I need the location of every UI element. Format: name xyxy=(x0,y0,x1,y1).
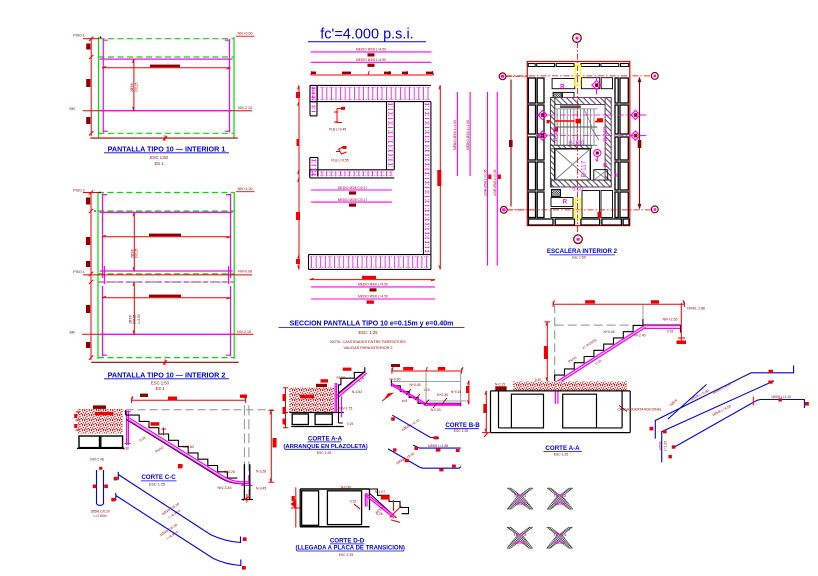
svg-text:Esc 1:50: Esc 1:50 xyxy=(572,255,586,259)
plazoleta steps outline (black) xyxy=(339,367,365,423)
grid bubble top (axis) xyxy=(573,34,582,43)
panel 2 base line (dark red) xyxy=(91,359,239,365)
svg-text:PASO: PASO xyxy=(337,376,346,380)
stair plan outer boundary (red) xyxy=(527,62,630,226)
corte D-D stair slab diagonal (magenta) xyxy=(365,493,396,518)
svg-text:1.20: 1.20 xyxy=(423,388,429,392)
svg-text:NIV-0.98: NIV-0.98 xyxy=(238,269,252,273)
corte A-A top dimension line (red) xyxy=(553,300,705,344)
svg-text:C/0.25: C/0.25 xyxy=(135,248,139,258)
svg-text:PISO 1: PISO 1 xyxy=(73,33,85,37)
svg-text:B-118: B-118 xyxy=(603,127,609,142)
corte A-A step labels (dark red) xyxy=(568,318,678,412)
svg-text:UGR Ø5/8 L=3.05: UGR Ø5/8 L=3.05 xyxy=(483,169,487,196)
svg-text:TIPO 3: TIPO 3 xyxy=(513,532,526,537)
svg-text:ESC 1:25: ESC 1:25 xyxy=(317,451,332,455)
svg-text:4Ø5/8: 4Ø5/8 xyxy=(514,540,526,545)
corte C-C title text xyxy=(141,474,177,486)
plazoleta slab with voids (black) xyxy=(289,413,344,427)
svg-text:NIV-2.15: NIV-2.15 xyxy=(237,330,251,334)
svg-text:1Ø5/8 L=1.85: 1Ø5/8 L=1.85 xyxy=(428,444,449,448)
section cut diamonds right (magenta) xyxy=(631,110,645,140)
svg-text:ESC 1:50: ESC 1:50 xyxy=(150,155,169,160)
plan interior blocks below stairwell xyxy=(551,190,613,218)
svg-text:TIPO 4: TIPO 4 xyxy=(553,532,566,537)
corte B-B top dimension line (red) xyxy=(391,364,463,374)
svg-text:NIV-2.48: NIV-2.48 xyxy=(90,458,104,462)
svg-text:B-119: B-119 xyxy=(553,127,559,142)
svg-text:MEDIO Ø3/8 C/0.17: MEDIO Ø3/8 C/0.17 xyxy=(338,186,368,190)
corte C-C construction line horizontal (gray dashed) xyxy=(126,409,274,411)
landing bar A (blue) xyxy=(391,415,439,439)
plan left masonry column xyxy=(528,78,544,218)
slab bottom bar 2 (blue) xyxy=(111,493,246,570)
corte A-A stair steps (black) xyxy=(555,319,681,381)
svg-text:ESC 1:25: ESC 1:25 xyxy=(554,452,569,456)
svg-text:PLB L=0.55: PLB L=0.55 xyxy=(331,159,348,163)
svg-text:N 0.00: N 0.00 xyxy=(431,408,441,412)
svg-text:CORTE C-C: CORTE C-C xyxy=(141,474,176,481)
panel 2 level line NIV-2.15 (red) xyxy=(82,330,253,335)
panel 2 horizontal rebar (magenta) xyxy=(100,212,233,334)
section top dimension line (red) xyxy=(311,71,434,75)
corte C-C masonry hatched block (red stipple) xyxy=(74,405,122,433)
corte A-A hatched screed band (red stipple) xyxy=(495,378,627,391)
plazoleta labels (dark red) xyxy=(337,368,366,426)
stirrup detail vertical (blue) xyxy=(90,467,110,518)
svg-text:L=2.80: L=2.80 xyxy=(137,314,141,324)
svg-text:0.26: 0.26 xyxy=(376,512,382,516)
bottom rebar line 2 with label (magenta) xyxy=(311,295,435,304)
plan title text xyxy=(547,248,618,259)
svg-text:1Ø5/8: 1Ø5/8 xyxy=(659,441,663,450)
plan axis centerline horizontal top (red dash-dot) xyxy=(506,75,652,77)
svg-text:MEDIO Ø3/8 C/0.17: MEDIO Ø3/8 C/0.17 xyxy=(338,198,368,202)
panel 2 level line NIV-0.98 (red) xyxy=(83,269,254,275)
svg-text:N-1.07: N-1.07 xyxy=(375,490,385,494)
svg-text:R: R xyxy=(603,163,607,169)
panel 1 vertical rebar (magenta) xyxy=(103,39,229,133)
svg-text:N-3.45: N-3.45 xyxy=(256,487,266,491)
section right dimension line (red) xyxy=(437,85,441,269)
stairwell middle wall (hatched) xyxy=(550,145,591,149)
yellow column marker bottom xyxy=(575,199,580,219)
svg-text:N+0.45: N+0.45 xyxy=(603,330,614,334)
section bottom dimension line (red) xyxy=(310,276,435,281)
panel 1 top level text NIV+0.00 xyxy=(69,32,254,112)
svg-text:ESC 1:25: ESC 1:25 xyxy=(454,429,469,433)
slab bottom bar 1 (blue) xyxy=(114,472,247,543)
top rebar line 2 with label (magenta) xyxy=(311,58,432,67)
plazoleta wall rebar vertical (magenta) xyxy=(335,383,341,417)
svg-text:ESC 1:50: ESC 1:50 xyxy=(151,381,170,386)
corte C-C stair soffit (black) xyxy=(127,420,245,484)
corte B-B title text xyxy=(445,422,480,433)
section left top wall stub (hatched) xyxy=(310,85,317,116)
corte C-C right dimension line (red) xyxy=(269,410,277,482)
column detail TIPO 2 (hatched bowtie) xyxy=(547,488,573,509)
panel 1 width dimension (red) xyxy=(102,65,231,70)
svg-text:NIV-3.45: NIV-3.45 xyxy=(218,486,232,490)
top rebar line 1 with label (magenta) xyxy=(311,48,432,57)
svg-text:B-117: B-117 xyxy=(581,160,588,177)
svg-text:0.15: 0.15 xyxy=(347,422,354,426)
corte C-C stair slab (magenta) xyxy=(127,417,252,485)
svg-text:PISO 1: PISO 1 xyxy=(73,270,85,274)
corte C-C red tick at wall base xyxy=(243,494,250,503)
svg-text:a=9: a=9 xyxy=(402,399,408,403)
svg-text:BM: BM xyxy=(69,107,74,111)
corte A-A construction lines (gray) xyxy=(555,304,680,381)
red marker mid-left of plan xyxy=(547,120,550,123)
grid bubble right bottom (axis) xyxy=(651,206,658,213)
panel 1 title text xyxy=(104,144,229,166)
corte B-B level labels (dark red) xyxy=(402,383,462,412)
beam labels (magenta) xyxy=(553,127,618,192)
corte D-D left dimension (red) xyxy=(291,487,301,527)
plan right masonry column xyxy=(615,78,628,218)
corte A-A stair slab (magenta) xyxy=(555,326,680,404)
svg-text:N-3.28: N-3.28 xyxy=(256,470,266,474)
svg-text:C/0.25: C/0.25 xyxy=(134,82,138,92)
svg-text:fc'=4.000 p.s.i.: fc'=4.000 p.s.i. xyxy=(320,27,413,43)
stair bar 4 short (blue) xyxy=(668,384,754,419)
corte D-D red cross tick at slab end xyxy=(390,506,402,523)
PLB bar symbol 2 (red) with label xyxy=(331,146,348,163)
vertical rebar bar 4 (magenta) with label xyxy=(493,92,501,266)
corte C-C wall rebar (magenta) xyxy=(125,411,131,446)
svg-text:R: R xyxy=(563,200,568,206)
corte D-D slab with voids (black) xyxy=(300,489,369,527)
plazoleta masonry hatched block (red stipple) xyxy=(289,379,334,412)
stair bar 3 (blue) with end hook xyxy=(672,395,809,449)
svg-text:MEDIO Ø3/8 L=1.80: MEDIO Ø3/8 L=1.80 xyxy=(466,120,470,150)
svg-text:VALIDAS PARA INTERIOR 2: VALIDAS PARA INTERIOR 2 xyxy=(343,346,392,350)
stair treads xyxy=(550,109,599,145)
elevator shaft with X brace xyxy=(555,149,591,180)
section left bottom wall stub (hatched) xyxy=(310,158,318,177)
wall panel PANTALLA TIPO 10 - INTERIOR 1 outline (green) xyxy=(99,37,235,139)
plan interior blocks above stairwell xyxy=(552,78,612,99)
svg-text:N-3.26: N-3.26 xyxy=(224,470,235,474)
plan axis centerline vertical (red dash-dot) xyxy=(576,42,578,236)
svg-text:TIPO 2: TIPO 2 xyxy=(554,493,567,498)
stair bar 1 (blue) with hooks xyxy=(650,366,794,439)
corte C-C construction verticals (gray) xyxy=(244,405,249,499)
stairwell bottom wall (hatched) xyxy=(551,180,611,187)
svg-text:CORTE B-B: CORTE B-B xyxy=(445,422,480,429)
landing bar C (blue) xyxy=(388,448,461,471)
svg-text:MEDIO Ø3/8 L=4.50: MEDIO Ø3/8 L=4.50 xyxy=(356,58,386,62)
svg-text:MEDIO Ø3/8 L=4.50: MEDIO Ø3/8 L=4.50 xyxy=(356,48,386,52)
panel 1 base line (dark red) xyxy=(90,135,238,141)
section right wall band (hatched) xyxy=(423,102,431,255)
svg-text:SECCION PANTALLA TIPO 10 e: SECCION PANTALLA TIPO 10 e=0.15m y e=0.4… xyxy=(290,321,454,328)
plan top masonry course xyxy=(528,64,629,67)
concrete strength note fc'=4.000 p.s.i. xyxy=(308,27,426,43)
svg-text:N+0.45: N+0.45 xyxy=(409,383,420,387)
svg-text:0.15: 0.15 xyxy=(667,329,674,333)
column detail TIPO 1 (hatched bowtie) xyxy=(507,488,533,509)
corte D-D labels (dark red) xyxy=(341,485,394,515)
column detail TIPO 3 (hatched bowtie) xyxy=(507,527,533,548)
plan right dimension line (dark red) xyxy=(638,78,642,208)
corte D-D steps going down (black) xyxy=(370,489,409,518)
corte B-B right dimension (red) xyxy=(466,381,469,405)
corte C-C foundation wall right (black) xyxy=(242,464,254,499)
svg-text:NIV-1.75: NIV-1.75 xyxy=(339,407,352,411)
svg-text:NIV-2.15: NIV-2.15 xyxy=(238,106,252,110)
section top wall band (hatched) xyxy=(310,85,431,101)
plazoleta title text xyxy=(283,435,367,454)
svg-text:NIV+2.55: NIV+2.55 xyxy=(662,318,677,322)
stairwell landing edge (dark gray) xyxy=(560,105,581,108)
svg-text:N-1.52: N-1.52 xyxy=(352,390,362,394)
stairwell left wall (hatched) xyxy=(550,98,554,187)
svg-text:R: R xyxy=(560,85,565,91)
svg-text:0.40: 0.40 xyxy=(535,378,542,382)
section middle horizontal wall band (hatched) xyxy=(310,170,395,178)
section middle vertical wall band (hatched) xyxy=(387,102,395,170)
svg-text:1Ø5/8 C/0.20: 1Ø5/8 C/0.20 xyxy=(90,509,110,513)
svg-text:B-121: B-121 xyxy=(572,187,584,192)
bottom rebar line 1 with label (magenta) xyxy=(311,283,435,292)
svg-text:L=1.20: L=1.20 xyxy=(663,441,667,451)
svg-text:ES 1: ES 1 xyxy=(154,161,164,166)
grid bubble 14 (bottom) xyxy=(500,206,533,213)
svg-text:B-120: B-120 xyxy=(569,140,584,146)
svg-text:MEDIO Ø3/8 L=4.50: MEDIO Ø3/8 L=4.50 xyxy=(358,283,388,287)
section cut diamonds left (magenta) xyxy=(536,110,547,140)
panel 2 left dimension line (red) xyxy=(83,190,99,360)
stair bar 2 (blue) xyxy=(659,381,775,463)
dimension line between bubbles (dark red) xyxy=(509,80,513,207)
svg-text:1Ø5/8 L=1.10: 1Ø5/8 L=1.10 xyxy=(771,395,791,399)
plan axis centerline horizontal bottom (red dash-dot) xyxy=(507,209,652,211)
section cut axis lines (magenta dash-dot) xyxy=(537,115,648,136)
svg-text:TIPO 1: TIPO 1 xyxy=(514,493,527,498)
corte C-C stair steps (black) xyxy=(126,410,238,478)
corte C-C slab voids below block (black) xyxy=(77,436,125,448)
svg-text:NIVEL 2.88: NIVEL 2.88 xyxy=(687,307,705,311)
svg-text:ESC 1:25: ESC 1:25 xyxy=(339,553,354,557)
corte A-A left height dimension (red) xyxy=(544,322,550,381)
panel 1 level line NIV-2.15 (red) xyxy=(83,106,254,111)
svg-text:PANTALLA TIPO 10 — INTERIOR 2: PANTALLA TIPO 10 — INTERIOR 2 xyxy=(108,370,226,379)
svg-text:ES 1: ES 1 xyxy=(155,386,165,391)
svg-text:ESC: 1:25: ESC: 1:25 xyxy=(358,330,378,335)
section left dimension line (red) xyxy=(296,85,300,269)
stair cut diamond top (magenta) xyxy=(592,77,601,95)
corte C-C top dimension line (red) xyxy=(132,394,247,403)
stairwell right wall (hatched) xyxy=(605,98,611,187)
svg-text:ESCALERA INTERIOR 2: ESCALERA INTERIOR 2 xyxy=(547,248,618,255)
interior rebar line 1 with label (magenta) xyxy=(311,186,392,195)
svg-text:UGR Ø5/8 L=3.05: UGR Ø5/8 L=3.05 xyxy=(493,169,497,196)
svg-text:N-2.83: N-2.83 xyxy=(183,445,194,449)
panel 2 level texts xyxy=(69,187,254,335)
plazoleta left dimension line (red) xyxy=(283,388,289,428)
small shaft with X brace xyxy=(594,170,608,181)
svg-text:CORTE D-D: CORTE D-D xyxy=(330,537,365,544)
svg-text:N-0.90: N-0.90 xyxy=(341,485,351,489)
svg-text:N-2.30: N-2.30 xyxy=(119,447,129,451)
svg-text:PLB L=0.45: PLB L=0.45 xyxy=(329,128,346,132)
red marker bottom area of plan xyxy=(598,212,601,218)
svg-text:NIV+1.30: NIV+1.30 xyxy=(237,187,252,191)
corte B-B stair slab (magenta) xyxy=(391,383,460,406)
panel 2 title text xyxy=(104,370,229,391)
yellow column marker top xyxy=(575,65,580,86)
svg-text:CORTE A-A: CORTE A-A xyxy=(545,445,580,452)
vertical rebar bar 2 (magenta) with label xyxy=(466,92,470,176)
stairwell top wall (hatched) xyxy=(551,98,611,105)
panel 2 width dimension lower (red) xyxy=(102,295,231,299)
panel 2 vertical rebar (magenta) xyxy=(103,194,231,357)
corte A-A red tick right end xyxy=(678,303,685,341)
svg-text:4Ø3/4: 4Ø3/4 xyxy=(554,501,566,506)
plan bottom masonry course xyxy=(529,219,630,225)
panel 1 horizontal rebar (magenta) xyxy=(100,59,233,111)
svg-text:NOTA: CANTIDADES ENTRE PAREN: NOTA: CANTIDADES ENTRE PARENTESIS xyxy=(330,340,406,344)
svg-text:ESC 1:25: ESC 1:25 xyxy=(149,482,165,486)
corte A-A title text xyxy=(544,445,583,457)
wall panel PANTALLA TIPO 10 - INTERIOR 2 outline (green) xyxy=(98,192,234,359)
svg-text:MEDIO Ø3/8 L=1.80: MEDIO Ø3/8 L=1.80 xyxy=(453,120,457,150)
corte D-D title text xyxy=(295,537,404,557)
grid bubble right top (axis) xyxy=(651,73,658,80)
column detail TIPO 4 (hatched bowtie) xyxy=(547,527,573,548)
svg-text:L=2.80m: L=2.80m xyxy=(94,514,107,518)
svg-text:MEDIO Ø3/8 L=4.50: MEDIO Ø3/8 L=4.50 xyxy=(358,295,388,299)
stair up-arrow line (red) xyxy=(548,118,603,131)
section title text xyxy=(279,321,465,350)
panel 1 height dimension (red) xyxy=(130,59,138,111)
corte A-A slab left dimension (red) xyxy=(482,391,490,437)
grid bubble 13 (top) xyxy=(499,73,527,80)
plazoleta stair slab diagonal (magenta) xyxy=(336,372,367,399)
svg-text:BM: BM xyxy=(69,331,74,335)
svg-text:N+0.15: N+0.15 xyxy=(451,390,462,394)
corte B-B steps (black) xyxy=(391,380,460,407)
corte A-A joist slab (black) xyxy=(491,391,631,433)
detail circle marker (magenta) xyxy=(594,149,601,161)
panel 2 height dimension lower (red) xyxy=(128,282,141,334)
vertical rebar bar 3 (magenta) with label xyxy=(483,92,491,266)
panel 2 width dimension upper (red) xyxy=(102,234,231,238)
svg-text:4Ø3/4: 4Ø3/4 xyxy=(554,540,566,545)
svg-text:CORTE A-A: CORTE A-A xyxy=(308,435,343,442)
svg-text:N+0.30: N+0.30 xyxy=(437,393,448,397)
svg-text:PANTALLA TIPO 10 — INTERIOR 1: PANTALLA TIPO 10 — INTERIOR 1 xyxy=(108,144,226,153)
svg-text:PISO 2: PISO 2 xyxy=(73,189,85,193)
panel 1 left dimension line (red) xyxy=(83,37,99,136)
corte B-B leader arrow left (red) xyxy=(382,378,401,402)
svg-text:N+2.40: N+2.40 xyxy=(634,334,645,338)
panel 2 height dimension upper (red) xyxy=(130,212,138,271)
grid bubble bottom (axis) xyxy=(574,235,583,244)
interior rebar line 2 with label (magenta) xyxy=(311,198,392,207)
svg-text:4Ø5/8: 4Ø5/8 xyxy=(515,501,527,506)
section bottom wall band (hatched) xyxy=(309,255,431,270)
svg-text:NIV+0.00: NIV+0.00 xyxy=(237,32,252,36)
corte B-B construction lines (gray) xyxy=(391,371,466,404)
corte C-C step labels (dark red) xyxy=(90,422,266,490)
svg-text:N-0.15: N-0.15 xyxy=(495,383,505,387)
PLB bar symbol 1 (red) with label xyxy=(329,107,346,132)
svg-text:0.15: 0.15 xyxy=(350,500,357,504)
landing bar B (blue horizontal) xyxy=(413,444,461,452)
svg-text:N+0.60: N+0.60 xyxy=(389,378,400,382)
vertical rebar bar 1 (magenta) with label xyxy=(453,92,457,176)
